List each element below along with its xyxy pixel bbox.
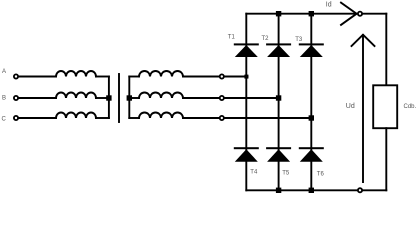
svg-text:T4: T4: [250, 169, 258, 175]
bridge leg 1 wire: [245, 14, 247, 191]
junction leg 2 / bottom bus: [276, 188, 281, 193]
diode T3: [299, 43, 324, 45]
node on bottom bus: [358, 188, 362, 192]
wire secondary c to terminal: [183, 117, 219, 119]
junction secondary star: [127, 95, 132, 100]
diode T6: [299, 147, 324, 149]
wire top bus to load: [385, 14, 387, 86]
svg-text:A: A: [2, 69, 6, 75]
terminal secondary b: [220, 96, 224, 100]
primary winding phase B: [56, 93, 96, 99]
terminal secondary a: [220, 74, 224, 78]
junction leg 2 / top bus: [276, 11, 281, 16]
diode T1: [234, 43, 259, 45]
load resistor Cdb: [373, 85, 397, 128]
wire secondary a to terminal: [183, 76, 219, 78]
svg-text:T2: T2: [262, 36, 270, 42]
positive DC bus (top): [246, 13, 386, 15]
svg-text:B: B: [2, 96, 6, 102]
wire star to secondary coil c: [129, 117, 139, 119]
secondary winding phase a: [139, 71, 183, 77]
junction phase a / leg 1: [244, 75, 248, 79]
wire primary B to star point: [96, 97, 109, 99]
junction leg 3 / bottom bus: [309, 188, 314, 193]
wire star to secondary coil a: [129, 76, 139, 78]
junction phase b / leg 2: [276, 95, 281, 100]
svg-text:T5: T5: [282, 171, 290, 177]
wire A to primary coil: [19, 76, 56, 78]
terminal A: [14, 74, 18, 78]
node on top bus: [358, 12, 362, 16]
primary winding phase A: [56, 71, 96, 77]
diode T5: [266, 147, 291, 149]
wire primary C to star point: [96, 117, 109, 119]
bridge leg 3 wire: [310, 14, 312, 191]
primary star-point wire: [108, 77, 110, 119]
terminal B: [14, 96, 18, 100]
primary winding phase C: [56, 113, 96, 119]
wire load to bottom bus: [385, 128, 387, 190]
secondary winding phase c: [139, 113, 183, 119]
svg-text:T3: T3: [295, 37, 303, 43]
diode T2: [266, 43, 291, 45]
transformer core: [118, 74, 120, 122]
svg-text:T1: T1: [228, 35, 236, 41]
svg-text:Id: Id: [326, 2, 332, 9]
terminal secondary c: [220, 116, 224, 120]
wire phase a to bridge leg 1: [225, 76, 248, 78]
svg-text:Ud: Ud: [346, 103, 355, 110]
diode T4: [234, 147, 259, 149]
junction primary star: [106, 95, 111, 100]
svg-text:T6: T6: [317, 172, 325, 178]
wire phase c to bridge leg 3: [225, 117, 311, 119]
wire primary A to star point: [96, 76, 109, 78]
wire C to primary coil: [19, 117, 56, 119]
wire B to primary coil: [19, 97, 56, 99]
wire star to secondary coil b: [129, 97, 139, 99]
secondary star-point wire: [128, 77, 130, 119]
terminal C: [14, 116, 18, 120]
wire secondary b to terminal: [183, 97, 219, 99]
junction leg 3 / top bus: [309, 11, 314, 16]
bridge leg 2 wire: [278, 14, 280, 191]
secondary winding phase b: [139, 93, 183, 99]
negative DC bus (bottom): [246, 189, 386, 191]
svg-text:C: C: [2, 116, 7, 122]
current arrow Id: [341, 3, 357, 25]
svg-text:Cdb.: Cdb.: [404, 104, 417, 110]
junction phase c / leg 3: [309, 115, 314, 120]
voltage arrow Ud: [352, 35, 375, 182]
wire phase b to bridge leg 2: [225, 97, 279, 99]
